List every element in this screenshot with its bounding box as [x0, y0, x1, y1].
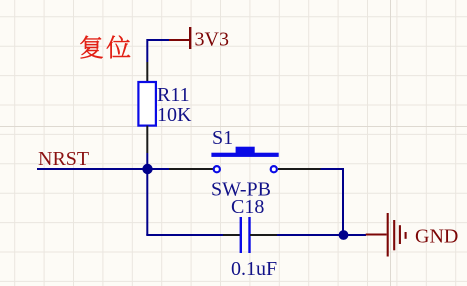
wire — [147, 234, 223, 235]
pin — [223, 234, 240, 236]
power port 3V3 — [169, 27, 190, 49]
svg-text:R11: R11 — [157, 84, 190, 106]
ground GND — [366, 213, 406, 257]
svg-text:S1: S1 — [212, 127, 233, 149]
svg-text:NRST: NRST — [38, 148, 89, 170]
pin — [250, 234, 277, 236]
svg-text:0.1uF: 0.1uF — [231, 258, 277, 280]
svg-text:3V3: 3V3 — [195, 29, 229, 51]
pin — [169, 168, 213, 170]
pin — [146, 62, 148, 82]
pin — [146, 126, 148, 153]
wire — [146, 153, 148, 235]
wire — [277, 234, 366, 236]
svg-text:10K: 10K — [157, 104, 192, 126]
wire — [147, 40, 169, 62]
resistor R11 — [138, 82, 156, 126]
wire — [321, 169, 344, 235]
pin — [278, 168, 321, 170]
junction node — [339, 230, 349, 240]
svg-text:C18: C18 — [231, 196, 264, 218]
label 复位 — [80, 36, 130, 59]
junction node — [142, 164, 152, 174]
svg-text:GND: GND — [415, 226, 458, 248]
wire — [37, 168, 169, 170]
